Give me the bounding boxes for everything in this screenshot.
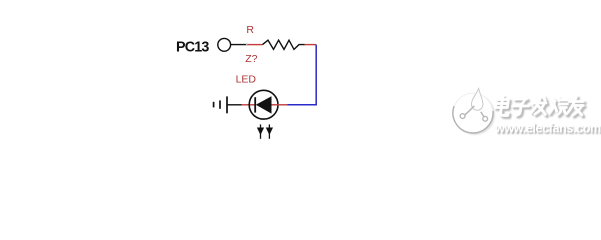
- svg-text:R: R: [246, 24, 254, 36]
- svg-text:www.elecfans.com: www.elecfans.com: [494, 122, 601, 136]
- svg-text:LED: LED: [236, 74, 257, 86]
- svg-text:PC13: PC13: [176, 40, 209, 56]
- svg-text:Z?: Z?: [245, 53, 257, 65]
